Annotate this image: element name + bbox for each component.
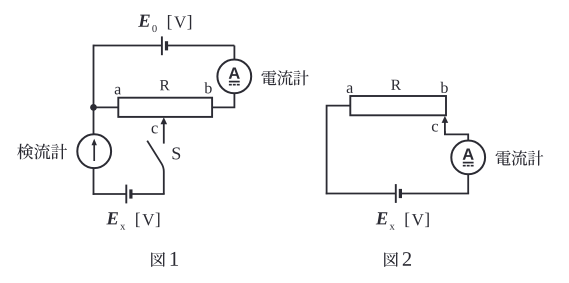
galvanometer G bbox=[77, 134, 111, 168]
label E0 [V] bbox=[138, 15, 191, 32]
label S bbox=[172, 147, 180, 159]
battery E0 bbox=[162, 36, 167, 55]
label R (fig2) bbox=[391, 80, 401, 90]
label ammeter (fig1) 電流計 bbox=[261, 70, 308, 85]
ammeter U2 (fig2) bbox=[451, 141, 485, 175]
label a (fig1) bbox=[115, 87, 121, 95]
wire galvanometer to bottom (fig1) bbox=[93, 168, 95, 195]
label c (fig2) bbox=[432, 124, 438, 132]
wire bottom left (fig1) bbox=[93, 193, 127, 195]
wire top left (fig1) bbox=[94, 45, 163, 47]
wire top to ammeter (fig1) bbox=[233, 46, 235, 61]
label 図1 bbox=[151, 252, 178, 267]
label R (fig1) bbox=[160, 80, 170, 90]
label a (fig2) bbox=[347, 85, 353, 93]
label ammeter (fig2) 電流計 bbox=[496, 150, 544, 165]
wire ammeter to bottom (fig2) bbox=[467, 174, 469, 194]
wire bottom right (fig2) bbox=[400, 193, 469, 195]
label b (fig1) bbox=[204, 82, 211, 93]
wire node to resistor bbox=[93, 106, 119, 108]
wire resistor b to ammeter (fig1) bbox=[212, 93, 235, 108]
wire top right (fig1) bbox=[166, 45, 234, 47]
label Ex [V] (fig2) bbox=[376, 212, 429, 229]
wire left vertical (fig1) bbox=[93, 45, 95, 135]
label galvanometer 検流計 bbox=[17, 144, 67, 160]
wire bottom right (fig1) bbox=[131, 193, 165, 195]
label b (fig2) bbox=[440, 82, 447, 93]
switch S blade bbox=[147, 141, 164, 194]
node junction dot bbox=[90, 104, 97, 111]
wire c to ammeter (fig2) bbox=[445, 131, 468, 142]
battery Ex (fig1) bbox=[126, 185, 131, 204]
ammeter U1 (fig1) bbox=[217, 60, 251, 94]
arrow wiper c (fig2) bbox=[442, 116, 449, 134]
label c (fig1) bbox=[152, 126, 158, 134]
label 図2 bbox=[384, 252, 411, 267]
wire a to left side (fig2) bbox=[327, 106, 351, 195]
label Ex [V] (fig1) bbox=[106, 212, 159, 229]
battery Ex (fig2) bbox=[396, 184, 401, 203]
wire bottom left (fig2) bbox=[326, 193, 396, 195]
resistor R (fig2) bbox=[350, 96, 446, 115]
arrow wiper c (fig1) bbox=[161, 117, 168, 143]
resistor R (fig1) bbox=[118, 98, 212, 117]
